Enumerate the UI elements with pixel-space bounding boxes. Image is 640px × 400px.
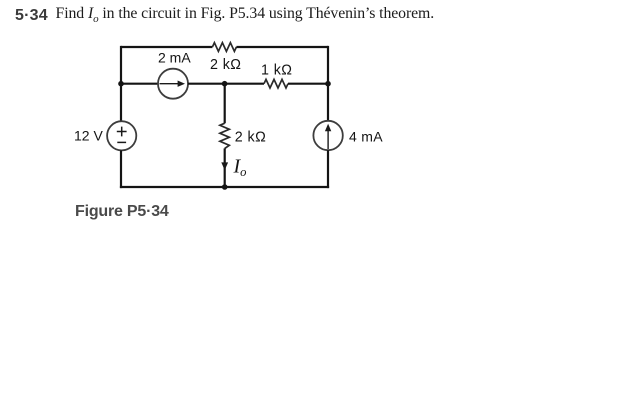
svg-text:Io: Io [233, 156, 247, 180]
figure caption [75, 203, 169, 221]
wire: middle node to 1k resistor [225, 83, 264, 85]
node junction: middle rail / right edge [325, 81, 331, 87]
label 2 kOhm (vertical resistor) [235, 130, 266, 146]
label 2 mA [158, 50, 191, 66]
wire: 1k resistor to right edge [288, 83, 328, 85]
label 4 mA [349, 129, 383, 145]
wire: bottom rail [120, 186, 329, 188]
resistor R 2 kOhm (top) [212, 43, 236, 52]
wire: 2k resistor to top-right corner [236, 46, 328, 48]
problem statement title [15, 5, 434, 25]
wire: top-left corner to 2k resistor [121, 46, 212, 48]
wire: 2mA source to middle node [188, 83, 225, 85]
wire: left edge lower segment [120, 150, 122, 188]
svg-text:4 mA: 4 mA [349, 129, 383, 145]
resistor R 1 kOhm [264, 79, 288, 88]
svg-text:1 kΩ: 1 kΩ [261, 63, 292, 79]
current source I2 4mA circle [313, 121, 342, 150]
svg-text:2 kΩ: 2 kΩ [235, 130, 266, 146]
svg-text:12 V: 12 V [74, 128, 103, 144]
label 1 kOhm [261, 63, 292, 79]
voltage source V1 12V circle [107, 121, 136, 150]
wire: middle rail left node to 2mA source [121, 83, 158, 85]
node junction: middle branch / bottom rail [222, 184, 228, 190]
label 2 kOhm (top resistor) [210, 57, 241, 73]
label 12 V [74, 128, 103, 144]
wire: middle node down to vertical 2k resistor [224, 84, 226, 124]
node junction: middle rail / middle branch [222, 81, 228, 87]
node junction: left rail / middle rail [118, 81, 124, 87]
svg-text:2 mA: 2 mA [158, 50, 191, 66]
wire: right edge upper segment [327, 46, 329, 121]
resistor R 2 kOhm (vertical) [220, 123, 229, 148]
label Io current [233, 156, 247, 180]
wire: right edge lower segment [327, 150, 329, 188]
svg-text:2 kΩ: 2 kΩ [210, 57, 241, 73]
wire: vertical 2k resistor to bottom rail with Io arrowhead [221, 148, 228, 187]
wire: left edge upper segment [120, 46, 122, 121]
current source I1 2mA circle [158, 69, 188, 99]
